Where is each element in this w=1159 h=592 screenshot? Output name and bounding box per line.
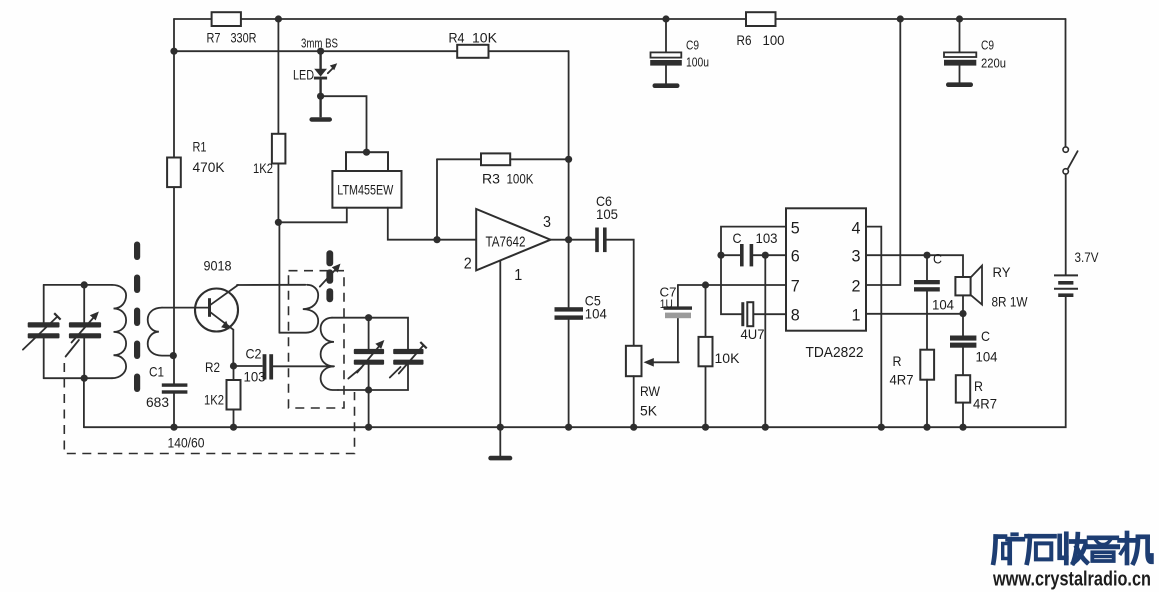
- junction dot: output node: [565, 236, 572, 243]
- svg-text:R1: R1: [193, 139, 207, 155]
- svg-text:3mm BS: 3mm BS: [301, 36, 338, 51]
- wire: tank top to trimmer caps: [332, 318, 408, 349]
- capacitor C 103 (feedback): [721, 230, 786, 266]
- variable capacitor gang4 trimmer (oscillator): [390, 342, 427, 378]
- resistor R 4R7 (output): [956, 375, 997, 427]
- junction dot: output net at ground rail: [959, 424, 966, 431]
- capacitor C2 103: [234, 346, 335, 385]
- junction dot: pin1 at ground rail: [497, 424, 504, 431]
- svg-text:10K: 10K: [715, 350, 741, 366]
- wire: V+ top rail: [174, 18, 1066, 20]
- junction dot: pin4 at ground rail: [878, 424, 885, 431]
- wire: tank bottom to ground rail: [83, 378, 85, 427]
- battery 3.7V: [1054, 249, 1099, 295]
- svg-text:LED: LED: [293, 67, 314, 83]
- svg-text:4U7: 4U7: [741, 326, 765, 342]
- svg-text:TDA2822: TDA2822: [806, 344, 864, 361]
- svg-text:TA7642: TA7642: [486, 234, 526, 251]
- junction dot: pin6 net at ground rail: [762, 424, 769, 431]
- svg-text:103: 103: [756, 230, 778, 246]
- antenna coil L1 (4 turns): [112, 285, 126, 378]
- svg-text:8: 8: [791, 307, 800, 325]
- wire: emitter down: [232, 330, 234, 366]
- capacitor C7 1U (electrolytic): [660, 285, 693, 362]
- svg-text:R: R: [974, 378, 983, 394]
- wire: left drop from top rail to second rail: [173, 19, 175, 51]
- svg-text:9018: 9018: [204, 258, 232, 274]
- svg-text:3: 3: [543, 214, 551, 231]
- variable capacitor gang3 (oscillator): [348, 318, 384, 390]
- antenna tank: top wire: [44, 284, 112, 286]
- capacitor C9 100u (electrolytic): [650, 19, 709, 83]
- svg-text:1U: 1U: [660, 297, 673, 311]
- capacitor C1 683: [146, 364, 187, 428]
- wire: bottom ground rail: [84, 426, 963, 428]
- svg-text:LTM455EW: LTM455EW: [337, 182, 394, 198]
- char ji: [1120, 538, 1135, 543]
- resistor R4 10K: [449, 30, 498, 58]
- svg-text:8R 1W: 8R 1W: [992, 294, 1029, 310]
- svg-text:C9: C9: [686, 39, 699, 53]
- svg-text:100u: 100u: [686, 56, 709, 70]
- svg-text:6: 6: [791, 248, 800, 266]
- junction dot: C9 220u at top rail: [956, 15, 963, 22]
- svg-text:140/60: 140/60: [168, 435, 205, 451]
- transistor Q1 9018: [195, 258, 238, 332]
- svg-text:104: 104: [976, 349, 998, 365]
- junction dot: coil bottom: [170, 352, 177, 359]
- ground symbol below rail: [488, 456, 512, 461]
- svg-text:C: C: [933, 251, 942, 267]
- svg-text:2: 2: [852, 278, 861, 296]
- junction dot: gang2 top: [81, 281, 88, 288]
- svg-text:R: R: [893, 353, 902, 369]
- wire: switch to battery: [1065, 174, 1067, 274]
- junction dot: 10K at ground rail: [702, 424, 709, 431]
- char yin: [1089, 535, 1117, 540]
- capacitor C 104 (zobel): [914, 251, 954, 350]
- junction dot: pin6 node: [762, 252, 769, 259]
- char kuang: [996, 534, 1005, 539]
- variable capacitor gang1 trimmer plates: [28, 322, 60, 327]
- LED D1: [293, 51, 337, 96]
- oscillator feedback coil (2 turns): [279, 285, 318, 333]
- resistor R1: [167, 139, 225, 188]
- ground symbol below C9 220u: [946, 82, 973, 87]
- wire: osc cap bottom to ground rail: [368, 390, 370, 427]
- junction dot: C1 at ground rail: [170, 424, 177, 431]
- switch (power): [1063, 147, 1078, 174]
- wire: C7 to TDA pin7: [678, 284, 786, 286]
- char shou: [1060, 536, 1067, 558]
- watermark logo: 矿石收音机 (drawn strokes): [993, 533, 1151, 563]
- svg-text:100: 100: [763, 32, 785, 48]
- wire: filter right pin to detector input: [388, 208, 476, 240]
- svg-text:1: 1: [514, 267, 522, 284]
- svg-text:R7: R7: [207, 30, 221, 46]
- svg-text:3.7V: 3.7V: [1075, 249, 1100, 265]
- junction dot: second rail left: [170, 48, 177, 55]
- svg-text:R4: R4: [449, 30, 465, 46]
- junction dot: output zobel node: [923, 252, 930, 259]
- wire: filter left pin to bias node: [278, 208, 346, 223]
- coupling coil L2 (2 turns): [148, 308, 173, 356]
- svg-text:R3: R3: [482, 171, 500, 187]
- wire: pin1 to speaker return: [866, 313, 963, 315]
- wire: collector to oscillator coil: [237, 284, 306, 286]
- svg-text:C: C: [981, 328, 990, 344]
- junction dot: LED at second rail: [317, 48, 324, 55]
- junction dot: gang2 bottom: [81, 375, 88, 382]
- IC U1 TA7642 (detector): [464, 209, 551, 284]
- variable capacitor gang1 trimmer adjust arrow (T-bar): [23, 317, 57, 350]
- antenna tank: bottom wire: [44, 377, 112, 379]
- svg-text:104: 104: [585, 306, 607, 322]
- junction dot: C9 100u at top rail: [662, 15, 669, 22]
- svg-text:7: 7: [791, 278, 800, 296]
- svg-text:3: 3: [852, 248, 861, 266]
- svg-text:www.crystalradio.cn: www.crystalradio.cn: [992, 568, 1151, 591]
- oscillator core trimmer (dashed slug): [320, 250, 341, 302]
- wire: detector output node: [551, 239, 596, 241]
- wire: second rail (after R7): [174, 50, 569, 52]
- potentiometer RW 5K (volume): [626, 346, 679, 427]
- junction dot: 103 left node: [717, 252, 724, 259]
- junction dot: detector input node: [433, 236, 440, 243]
- svg-text:C1: C1: [149, 364, 164, 380]
- svg-text:470K: 470K: [193, 159, 226, 175]
- ground symbol below LED: [309, 117, 332, 121]
- junction dot: C5 at ground rail: [565, 424, 572, 431]
- svg-text:5: 5: [791, 220, 800, 238]
- capacitor C 104 (output coupling): [950, 314, 998, 376]
- resistor R 4R7 (zobel): [890, 350, 935, 428]
- junction dot: filter top pin: [363, 149, 370, 156]
- dashed outline: oscillator coil can: [289, 271, 345, 408]
- wire: battery negative down to bottom rail: [963, 297, 1066, 427]
- svg-text:1: 1: [852, 307, 861, 325]
- wire: LED node to filter top: [321, 96, 367, 152]
- wire: base lead from coil to transistor: [162, 307, 208, 309]
- junction dot: RW at ground rail: [630, 424, 637, 431]
- speaker RY 8R 1W: [955, 264, 1028, 310]
- svg-text:1K2: 1K2: [253, 160, 273, 176]
- svg-text:105: 105: [596, 206, 618, 222]
- ferrite rod core (thick dashed): [134, 242, 140, 393]
- wire: pin3 output to speaker: [866, 255, 963, 277]
- svg-text:2: 2: [464, 256, 472, 273]
- wire: pin5 loop to pin6 column: [721, 227, 786, 315]
- svg-text:104: 104: [932, 297, 954, 313]
- wire: oscillator coil return up to bias node: [278, 222, 280, 332]
- variable capacitor gang2 arrow: [72, 317, 95, 343]
- resistor R2 1K2: [204, 359, 241, 427]
- svg-text:C: C: [733, 230, 742, 246]
- svg-text:RY: RY: [993, 264, 1012, 280]
- junction dot: R3 right at output column: [565, 156, 572, 163]
- svg-text:683: 683: [146, 394, 169, 410]
- svg-text:330R: 330R: [231, 30, 257, 46]
- wire: top rail right corner down to switch: [1065, 19, 1067, 147]
- svg-text:1K2: 1K2: [204, 392, 224, 408]
- svg-text:4: 4: [852, 220, 861, 238]
- junction dot: TDA pin2 supply at top rail: [897, 15, 904, 22]
- wire: tank bottom wire: [338, 365, 408, 390]
- ground symbol below C9 100u: [653, 83, 680, 88]
- svg-text:103: 103: [244, 369, 266, 385]
- junction dot: zobel at ground rail: [923, 424, 930, 431]
- capacitor C9 220u (electrolytic): [944, 19, 1006, 82]
- svg-text:5K: 5K: [640, 403, 658, 419]
- resistor 1K2 (bias, top): [253, 19, 285, 222]
- wire: left vertical from second rail down to coupling coil: [173, 51, 175, 383]
- variable capacitor gang2 plates: [69, 322, 101, 327]
- oscillator tank coil (3 turns): [321, 318, 338, 390]
- svg-text:R6: R6: [737, 32, 752, 48]
- char shi: [1027, 534, 1055, 539]
- svg-text:10K: 10K: [472, 30, 498, 46]
- svg-text:220u: 220u: [981, 57, 1006, 71]
- variable capacitor gang2 rotor tail: [66, 340, 79, 357]
- svg-text:4R7: 4R7: [890, 372, 914, 388]
- junction dot: bias node (1K2 / LTM pin / osc coil): [275, 219, 282, 226]
- junction dot: pin7 node / 10K top: [702, 281, 709, 288]
- svg-text:RW: RW: [640, 383, 661, 399]
- dashed outline: tuning gang enclosure: [64, 363, 354, 454]
- junction dot: LED cathode node: [317, 93, 324, 100]
- capacitor C5 104: [555, 293, 608, 322]
- wire: LED cathode to ground: [319, 96, 321, 117]
- svg-text:R2: R2: [205, 359, 220, 375]
- wire: pin2 to top rail: [866, 19, 900, 285]
- resistor 10K (input load): [699, 285, 741, 427]
- capacitor 4U7 (electrolytic, pin8): [741, 302, 787, 342]
- svg-text:C2: C2: [246, 346, 262, 362]
- wire: TA7642 pin1 to ground: [499, 261, 501, 456]
- wire: speaker bottom to pin1 net: [962, 295, 964, 313]
- junction dot: R7 right / 1K2 top: [275, 15, 282, 22]
- svg-text:4R7: 4R7: [973, 396, 997, 412]
- junction dot: speaker return node: [959, 310, 966, 317]
- junction dot: osc cap top: [365, 314, 372, 321]
- capacitor C6 105: [595, 193, 634, 346]
- wire: R4 column (second rail corner down through C5): [568, 51, 570, 427]
- svg-text:100K: 100K: [507, 171, 535, 187]
- variable capacitor gang1 trimmer (left): leads: [43, 285, 45, 378]
- IC U2 TDA2822 (amplifier): [786, 208, 866, 361]
- ceramic filter LTM455EW: [332, 152, 401, 208]
- resistor R6: [737, 12, 785, 48]
- junction dot: osc cap bottom: [365, 386, 372, 393]
- resistor R7: [207, 12, 257, 45]
- wire: pin6 node to ground rail: [764, 255, 766, 427]
- resistor R3 100K (feedback): [437, 153, 569, 239]
- junction dot: R2 at ground rail: [230, 424, 237, 431]
- junction dot: emitter node: [230, 362, 237, 369]
- wire: pin4 to ground rail: [866, 227, 881, 428]
- svg-text:C9: C9: [981, 39, 994, 53]
- variable capacitor gang2 (tuning): leads: [83, 285, 85, 378]
- junction dot: osc net at ground rail: [365, 424, 372, 431]
